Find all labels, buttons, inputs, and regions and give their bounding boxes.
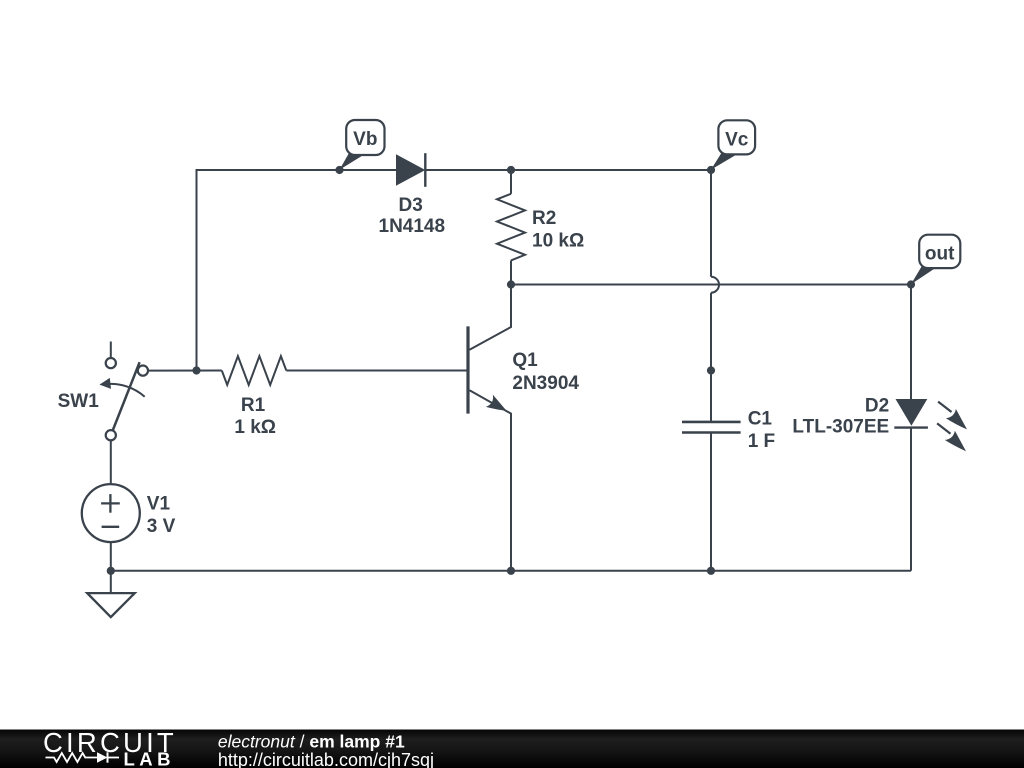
node out xyxy=(907,280,915,288)
wire LED cathode to bottom rail xyxy=(910,428,912,571)
node bottom V1 xyxy=(107,567,115,575)
transistor Q1 xyxy=(468,285,579,571)
capacitor C1 xyxy=(682,408,775,452)
svg-text:LTL-307EE: LTL-307EE xyxy=(792,417,889,438)
wire Vc branch upper xyxy=(710,170,712,277)
svg-text:10 kΩ: 10 kΩ xyxy=(532,230,584,251)
LED D2 xyxy=(792,396,967,452)
ground xyxy=(87,593,135,617)
svg-text:1 F: 1 F xyxy=(748,431,775,452)
node out flag xyxy=(911,235,960,285)
node bottom C1 xyxy=(707,567,715,575)
node R2 top xyxy=(507,166,515,174)
node C1 top xyxy=(707,366,715,374)
svg-text:LAB: LAB xyxy=(124,749,176,768)
wire bottom rail xyxy=(111,570,911,572)
node bottom Q1 xyxy=(507,567,515,575)
svg-text:http://circuitlab.com/cjh7sqj: http://circuitlab.com/cjh7sqj xyxy=(218,750,434,768)
svg-text:R2: R2 xyxy=(532,208,556,229)
wire Vc branch to C1 xyxy=(710,293,712,422)
node base R1 xyxy=(192,366,200,374)
resistor R1 xyxy=(222,356,286,385)
wire out branch to LED xyxy=(910,285,912,400)
wire C1 bottom lead xyxy=(710,433,712,571)
resistor R2 xyxy=(497,194,525,261)
wire top rail from diode cathode to Vc node xyxy=(425,169,711,171)
svg-text:electronut / em lamp #1: electronut / em lamp #1 xyxy=(218,732,405,752)
switch SW1 xyxy=(105,342,148,441)
svg-text:D2: D2 xyxy=(865,396,889,417)
node Vb xyxy=(335,166,343,174)
diode D3 xyxy=(379,153,446,237)
svg-text:out: out xyxy=(925,244,955,265)
footer logo squiggle xyxy=(46,752,120,762)
wire base rail from switch pole to R1 xyxy=(148,370,222,372)
node Vb flag xyxy=(340,120,385,170)
svg-text:V1: V1 xyxy=(147,494,171,515)
svg-text:1 kΩ: 1 kΩ xyxy=(234,417,276,438)
svg-text:3 V: 3 V xyxy=(147,516,176,537)
svg-text:1N4148: 1N4148 xyxy=(379,216,446,237)
wire V1 top lead xyxy=(110,440,112,484)
node R2 bottom xyxy=(507,280,515,288)
svg-text:D3: D3 xyxy=(399,195,423,216)
node Vc flag xyxy=(711,120,755,170)
svg-text:Vc: Vc xyxy=(725,129,749,150)
svg-text:Q1: Q1 xyxy=(512,350,538,371)
svg-text:R1: R1 xyxy=(241,395,266,416)
wire left rail vertical xyxy=(197,170,397,371)
svg-text:SW1: SW1 xyxy=(58,391,100,412)
svg-text:C1: C1 xyxy=(748,408,773,429)
wire crossover hop at C1 branch xyxy=(711,277,719,293)
wire mid rail R2 bottom to out node xyxy=(511,284,911,286)
wire V1 bottom lead xyxy=(110,542,112,571)
voltage source V1 xyxy=(82,484,176,542)
wire base from R1 to Q1 xyxy=(286,370,466,372)
wire ground lead xyxy=(110,571,112,593)
node Vc xyxy=(707,166,715,174)
footer bar xyxy=(0,730,1024,768)
svg-text:2N3904: 2N3904 xyxy=(512,373,579,394)
svg-text:Vb: Vb xyxy=(353,129,377,150)
